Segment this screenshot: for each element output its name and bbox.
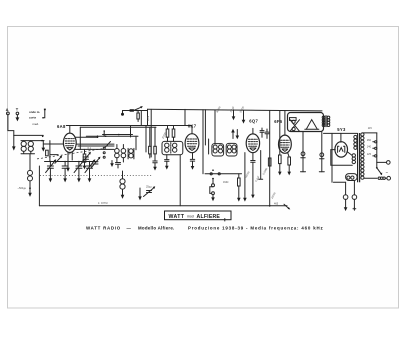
- filament winding loop: [346, 174, 358, 181]
- capacitor C10: [165, 155, 169, 170]
- svg-text:6Q7: 6Q7: [249, 119, 258, 124]
- resistor R8: [268, 158, 271, 166]
- wire heater loop: [331, 150, 353, 166]
- svg-text:mod: mod: [187, 214, 194, 218]
- tube V5 5Y3: [335, 127, 348, 157]
- svg-text:5Y3: 5Y3: [337, 127, 346, 132]
- wire tap selector vertical: [376, 133, 378, 168]
- resistor R2 dial lamp: [130, 106, 143, 112]
- wire plate box line: [78, 145, 114, 147]
- svg-text:Produzione 1938-39 - Media f: Produzione 1938-39 - Media frequenza: 46…: [188, 226, 323, 231]
- trimmer arrow down: [236, 130, 240, 140]
- wire top HT bus: [148, 109, 323, 111]
- wire IF1 return to bus: [179, 155, 181, 206]
- IF transformer T2 can A: [212, 144, 224, 156]
- svg-text:25µµ: 25µµ: [146, 186, 152, 189]
- capacitor C14: [251, 153, 255, 199]
- padder coil L2: [28, 154, 33, 197]
- ground arrow coil junction: [41, 136, 45, 152]
- wire left power vertical: [331, 133, 333, 182]
- svg-text:med.: med.: [33, 122, 40, 126]
- wire L1 top links: [14, 135, 44, 140]
- svg-text:ALFIERE: ALFIERE: [197, 214, 221, 220]
- trimmer arrow up: [231, 129, 235, 139]
- ground arrow below antenna junction: [12, 135, 16, 150]
- oscillator coil L4: [121, 145, 126, 163]
- wire suppressor line: [75, 148, 115, 150]
- wire band box left edge: [79, 127, 81, 149]
- wire injection line: [75, 136, 98, 138]
- svg-text:Modello Alfiere.: Modello Alfiere.: [138, 226, 175, 231]
- speaker field coil: [290, 118, 300, 132]
- oscillator padding coil L6: [120, 171, 125, 199]
- wire to mains terminal 1: [377, 161, 387, 163]
- title box: [165, 211, 232, 221]
- wire HT lower line: [324, 132, 358, 134]
- antenna terminal A: [6, 107, 10, 115]
- resistor R9 bias: [278, 111, 282, 176]
- heater winding: [347, 152, 355, 164]
- svg-text:6A8: 6A8: [57, 124, 66, 129]
- capacitor C11: [190, 153, 194, 170]
- mains terminal 2: [387, 176, 391, 180]
- wire filter line: [333, 181, 345, 183]
- svg-text:465: 465: [274, 202, 279, 205]
- wire drop x215: [214, 110, 216, 144]
- wire drop x185: [184, 109, 186, 125]
- gang coupling dotted line: [40, 174, 153, 176]
- svg-text:6F6: 6F6: [274, 119, 282, 124]
- svg-text:WATT RADIO: WATT RADIO: [86, 226, 121, 231]
- svg-text:125: 125: [367, 153, 372, 156]
- tube V2 6K7: [185, 124, 199, 153]
- IF transformer T2 can B: [226, 143, 237, 156]
- svg-text:corte: corte: [29, 116, 36, 120]
- wire grid stopper: [259, 151, 263, 180]
- variable capacitor C2: [62, 161, 68, 183]
- speaker cone: [305, 120, 319, 130]
- wire IF link: [208, 139, 210, 154]
- wire 6A8 grid to coil: [43, 143, 63, 145]
- speaker housing: [288, 113, 324, 132]
- wire drop x205: [204, 110, 206, 145]
- wire screen line: [80, 126, 156, 128]
- switch S1: [376, 167, 382, 175]
- trimmer C6: [91, 157, 100, 168]
- resistor R10 cathode: [287, 153, 291, 176]
- capacitor C13: [265, 129, 269, 138]
- wire drop x147: [147, 109, 149, 125]
- wire bus riser: [38, 166, 40, 206]
- band switch S2 contacts: [103, 130, 110, 158]
- caption text: [86, 226, 323, 231]
- IF1 core: [170, 143, 172, 154]
- mains terminal 1: [387, 161, 391, 165]
- wire C1 feed: [50, 141, 58, 162]
- tuning gang wire row: [45, 161, 98, 163]
- wire osc grid line: [103, 134, 133, 136]
- value labels detector: [245, 167, 277, 199]
- wire switch bus: [86, 135, 138, 137]
- chassis bus wire: [39, 205, 287, 207]
- trimmer C17: [55, 156, 62, 164]
- coil L5 shielded: [128, 148, 134, 159]
- band switch dashed link: [37, 149, 104, 159]
- tube V4 6F6: [274, 119, 291, 153]
- ground arrow osc section: [110, 161, 114, 168]
- wire drop arrow 6Q7: [242, 110, 246, 123]
- tube V1 6A8: [57, 124, 76, 152]
- oscillator coil L3: [115, 145, 120, 163]
- wire drop x146: [145, 126, 147, 153]
- wire drop x269: [269, 111, 271, 206]
- capacitor C16 electrolytic: [352, 181, 357, 211]
- T4 primary winding: [361, 133, 364, 179]
- wire 6A8 cathode drop: [66, 152, 70, 172]
- wire antenna lead-in: [8, 115, 14, 135]
- tap 140: [367, 146, 377, 150]
- pilot lamp feed wire: [121, 111, 148, 116]
- volume pot P1: [210, 169, 229, 201]
- svg-text:~500µµ: ~500µµ: [18, 187, 27, 190]
- IF2A windings: [213, 145, 222, 153]
- svg-text:160: 160: [367, 139, 372, 142]
- variable capacitor C4: [85, 159, 95, 182]
- svg-text:1MΩ: 1MΩ: [223, 181, 228, 184]
- IF1 primary winding: [165, 143, 169, 152]
- wire drop x141: [140, 111, 142, 126]
- wire 6A8 top cap line: [66, 125, 192, 127]
- svg-text:A: A: [6, 107, 9, 112]
- wire primary top: [362, 132, 376, 134]
- resistor R12: [137, 110, 139, 122]
- variable capacitor C3: [74, 159, 85, 182]
- variable capacitor C1: [46, 159, 57, 182]
- wire drop x203: [202, 110, 204, 174]
- resistor R7: [237, 174, 241, 202]
- node bus joints: [269, 205, 271, 207]
- wire rectifier top cap: [340, 133, 342, 142]
- node sw1: [97, 135, 99, 137]
- wire 6F6 plate feed: [284, 111, 286, 135]
- IF transformer T1 can: [162, 141, 183, 154]
- node sw2: [105, 135, 107, 137]
- resistor R4: [154, 127, 157, 159]
- wire field lead 1: [301, 132, 306, 172]
- wire plate line: [76, 143, 114, 145]
- value labels IF: [230, 105, 246, 113]
- svg-text:6,3V: 6,3V: [147, 116, 150, 121]
- wire detector drop: [243, 153, 247, 202]
- T4 HT secondary winding: [354, 135, 357, 149]
- ground arrow padder: [138, 188, 142, 200]
- wire 6A8 cathode stub: [71, 152, 73, 160]
- wire osc verticals: [131, 126, 137, 150]
- resistor R3: [149, 127, 152, 158]
- svg-text:onde m.: onde m.: [29, 110, 40, 114]
- IF1 secondary winding: [173, 143, 177, 152]
- capacitor C12: [260, 128, 264, 137]
- svg-text:WATT: WATT: [169, 214, 185, 220]
- tube V3 6Q7: [246, 119, 259, 153]
- capacitor C9: [153, 160, 157, 171]
- wire field lead 2: [319, 132, 324, 172]
- ground terminal T: [16, 106, 20, 121]
- IF2B windings: [227, 145, 236, 153]
- AVC line: [205, 173, 242, 175]
- trimmer C5: [82, 152, 91, 163]
- resistor R11: [46, 150, 49, 156]
- waveband legend text: [29, 109, 46, 127]
- bus end arrow: [284, 204, 290, 209]
- capacitor C15 electrolytic: [343, 182, 348, 211]
- power transformer T4 core: [358, 133, 360, 182]
- svg-text:115: 115: [368, 127, 373, 130]
- padder capacitor C8: [144, 186, 156, 197]
- tap 125: [367, 153, 377, 157]
- resistor R6: [172, 126, 175, 142]
- node osc injection: [97, 136, 99, 138]
- tap 160: [367, 139, 377, 143]
- resistor R5: [166, 126, 169, 142]
- node osc1: [103, 134, 105, 136]
- capacitor C7: [116, 163, 121, 169]
- svg-text:140: 140: [367, 146, 372, 149]
- wire drop arrow x233: [232, 110, 236, 120]
- resistor R1: [83, 147, 92, 170]
- svg-text:—: —: [127, 226, 132, 231]
- antenna coil L1: [21, 141, 35, 154]
- wire drop x151: [150, 109, 152, 157]
- svg-text:4 OHM: 4 OHM: [98, 202, 108, 205]
- fuse F1: [364, 177, 387, 179]
- node osc2: [118, 134, 120, 136]
- output transformer T3: [322, 116, 330, 127]
